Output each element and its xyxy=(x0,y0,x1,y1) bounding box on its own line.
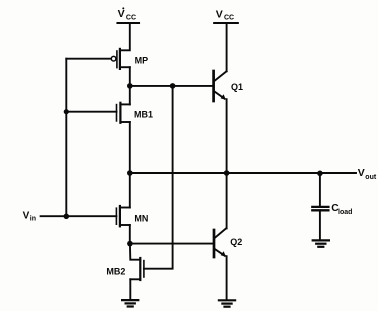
wire Q2 emitter down to ground xyxy=(226,256,228,299)
wire MB1 drain up to node A xyxy=(129,86,131,105)
svg-text:CC: CC xyxy=(224,15,234,22)
transistor Q1 (NPN) xyxy=(214,71,227,101)
wire MN source down to node B xyxy=(129,225,131,244)
wire VCC2 down to Q1 collector xyxy=(226,23,228,71)
label Vout xyxy=(358,167,377,181)
junction output Cload tap xyxy=(317,171,323,177)
transistor MN (NMOS) xyxy=(116,206,129,226)
wire MB2 source to ground xyxy=(129,279,131,299)
junction node B (MN source / MB2 drain) xyxy=(127,241,133,247)
svg-text:MN: MN xyxy=(134,213,148,223)
label Cload xyxy=(331,203,352,216)
svg-text:load: load xyxy=(338,209,352,216)
wire node B down to MB2 drain xyxy=(130,244,140,260)
svg-text:out: out xyxy=(365,174,377,181)
wire MP gate to left rail xyxy=(66,58,111,60)
svg-text:MB1: MB1 xyxy=(134,109,153,119)
svg-text:V: V xyxy=(216,8,223,20)
junction output Q1/Q2 xyxy=(224,170,230,176)
ground under Q2 xyxy=(219,300,235,306)
wire output node down to MN drain xyxy=(129,173,131,208)
svg-text:MB2: MB2 xyxy=(106,266,125,276)
junction node A (MP drain / MB1 drain) xyxy=(127,83,133,89)
wire Cload to ground xyxy=(319,210,321,239)
svg-text:in: in xyxy=(30,215,36,222)
wire MP drain down to node A xyxy=(129,67,131,86)
wire output rail down to Cload xyxy=(319,173,321,205)
junction tap to MB2 gate rail xyxy=(170,83,176,89)
svg-text:Q1: Q1 xyxy=(231,82,243,92)
svg-text:V: V xyxy=(118,8,125,20)
input Vin label xyxy=(23,210,36,222)
junction Vin / left rail xyxy=(64,214,70,220)
supply VCC2 (right) xyxy=(214,8,238,23)
capacitor Cload xyxy=(312,207,328,210)
wire node A to Q1 base xyxy=(130,85,213,87)
wire rail down to MB2 gate xyxy=(144,86,173,269)
svg-text:CC: CC xyxy=(126,14,136,21)
wire left rail vertical xyxy=(65,59,67,217)
junction output left xyxy=(127,170,133,176)
wire MB1 source down to output node xyxy=(129,122,131,173)
wire VCC1 down to MP source xyxy=(120,23,130,50)
transistor MB1 (NMOS) xyxy=(117,103,130,123)
supply VCC1 (left) xyxy=(118,7,140,23)
output rail wire xyxy=(130,172,356,174)
svg-text:MP: MP xyxy=(135,55,149,65)
transistor MB2 (NMOS, mirrored) xyxy=(130,258,144,280)
wire Q1 emitter down to output rail xyxy=(226,99,228,173)
svg-text:Q2: Q2 xyxy=(230,237,242,247)
wire MB1 gate to left rail xyxy=(66,111,116,113)
junction MB1 gate tap xyxy=(64,109,69,114)
wire Vin to MN gate xyxy=(41,215,117,217)
wire Q2 collector up to output rail xyxy=(226,173,228,228)
wire node B to Q2 base xyxy=(130,243,213,245)
svg-text:V: V xyxy=(358,167,365,179)
svg-text:V: V xyxy=(23,210,30,221)
transistor MP (PMOS) xyxy=(111,49,130,69)
ground under MB2 xyxy=(122,300,138,306)
transistor Q2 (NPN) xyxy=(214,228,226,257)
ground under Cload xyxy=(313,240,329,246)
